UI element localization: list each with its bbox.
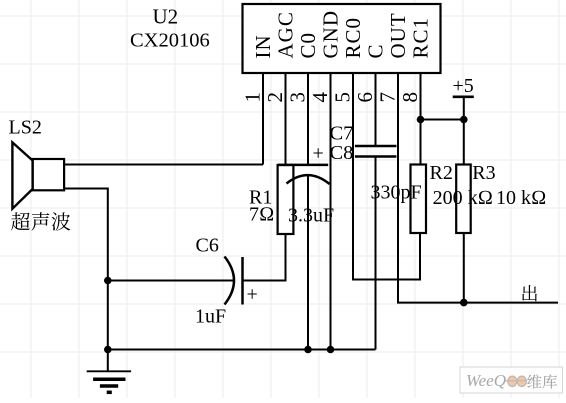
wire: +5 down to R3 [463, 97, 465, 165]
capacitor C6 straight (+) plate [241, 257, 244, 305]
svg-text:+: + [313, 143, 324, 165]
op-amp/IC U2 CX20106 body [243, 4, 441, 73]
wire: pin 3 down to C8 plate [307, 73, 309, 165]
svg-text:5: 5 [331, 92, 355, 103]
node: C8 / ground rail junction [304, 346, 312, 354]
svg-text:2: 2 [263, 92, 287, 103]
svg-text:AGC: AGC [273, 11, 297, 58]
node: +5 / rail junction [460, 116, 468, 124]
capacitor C8 straight (+) plate [278, 164, 329, 167]
svg-text:C8: C8 [330, 142, 354, 164]
svg-text:7Ω: 7Ω [249, 204, 274, 226]
label 出 (output) [522, 285, 537, 301]
svg-text:RC0: RC0 [341, 17, 365, 59]
capacitor C6 curved plate [225, 257, 235, 305]
watermark box [460, 367, 563, 393]
wire: pin 6 down to C7 [375, 73, 377, 146]
power +5 bar [453, 96, 474, 99]
svg-text:+5: +5 [453, 75, 474, 97]
svg-text:U2: U2 [153, 5, 179, 29]
node: pin4 / ground rail junction [327, 346, 335, 354]
svg-text:C: C [363, 43, 387, 58]
watermark 维库 text [527, 374, 541, 388]
node: ground rail / LS2 branch junction [104, 346, 112, 354]
svg-text:7: 7 [376, 92, 400, 103]
wire: LS2 bottom terminal right then down to ground rail [64, 189, 108, 350]
svg-text:330pF: 330pF [371, 182, 422, 204]
svg-text:WeeQ: WeeQ [466, 371, 506, 390]
svg-text:200 kΩ: 200 kΩ [433, 187, 493, 209]
resistor R1 body [278, 165, 294, 234]
watermark oo dots [508, 376, 517, 386]
svg-text:1: 1 [241, 92, 265, 103]
wire: pin 8 down to R2 top [420, 73, 422, 165]
wire: R1 bottom to C6 [243, 234, 286, 281]
speaker LS2 body [33, 159, 65, 190]
node: pin8 / +5 rail junction [417, 116, 425, 124]
capacitor C7 bottom plate [355, 155, 397, 158]
label 超声波 (ultrasonic) [11, 212, 70, 230]
svg-text:4: 4 [308, 92, 332, 103]
wire: C8 curved plate down to ground rail [307, 176, 309, 350]
resistor R3 body [456, 165, 471, 234]
wire: LS2 top terminal to pin 1 [64, 164, 263, 166]
wire: ground rail [108, 349, 376, 351]
svg-text:+: + [247, 284, 258, 306]
wire: pin 2 down to R1 [285, 73, 287, 165]
svg-text:3: 3 [286, 92, 310, 103]
resistor R2 body [411, 165, 427, 234]
capacitor C8 curved plate [287, 175, 330, 184]
ground symbol [87, 350, 131, 393]
svg-text:C0: C0 [296, 32, 320, 59]
svg-text:8: 8 [398, 92, 422, 103]
node: junction LS2 branch / C6 branch [104, 277, 112, 285]
svg-text:LS2: LS2 [9, 117, 42, 139]
wire: R3 bottom to OUT rail [463, 233, 465, 303]
wire: junction to C6 curved plate [108, 280, 234, 282]
svg-text:3.3uF: 3.3uF [288, 205, 334, 227]
wire: C7 bottom plate down to ground rail [375, 157, 377, 350]
svg-text:CX20106: CX20106 [130, 30, 210, 52]
speaker LS2 horn [12, 142, 32, 208]
svg-text:R3: R3 [472, 162, 495, 184]
svg-text:IN: IN [251, 34, 275, 58]
svg-text:OUT: OUT [386, 12, 410, 58]
wire: pin 5 down, right, up to R2 bottom [353, 73, 420, 280]
node: OUT / R3 junction [460, 299, 468, 307]
capacitor C7 top plate [355, 145, 397, 148]
svg-text:C6: C6 [196, 235, 219, 257]
svg-text:6: 6 [353, 92, 377, 103]
wire: pin 1 down [262, 73, 264, 165]
svg-text:GND: GND [318, 10, 342, 59]
svg-text:RC1: RC1 [408, 17, 432, 59]
svg-text:R2: R2 [430, 162, 453, 184]
svg-text:10 kΩ: 10 kΩ [496, 187, 546, 209]
wire: pin 4 (GND) down to ground rail [330, 73, 332, 350]
wire: pin 7 (OUT) down and right to output [398, 73, 558, 303]
wire: pin8 node to +5 node [421, 119, 464, 121]
svg-text:1uF: 1uF [195, 306, 226, 328]
